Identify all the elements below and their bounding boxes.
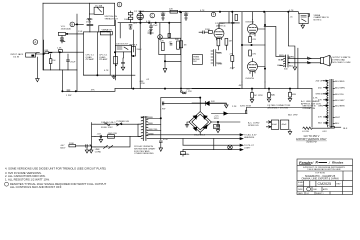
svg-text:HUM BAL: HUM BAL xyxy=(180,153,191,156)
svg-text:FUSE 125V: FUSE 125V xyxy=(101,127,113,129)
svg-text:RED: RED xyxy=(149,117,154,119)
svg-text:25K: 25K xyxy=(193,61,197,63)
svg-text:1. ALL RESISTORS 1/2 WATT 10%: 1. ALL RESISTORS 1/2 WATT 10%. xyxy=(5,177,50,181)
svg-text:CORD: CORD xyxy=(95,152,102,154)
svg-text:325V: 325V xyxy=(214,118,220,120)
svg-text:BLU/YEL: BLU/YEL xyxy=(335,94,345,96)
svg-text:OTHER VERSIONS: OTHER VERSIONS xyxy=(134,153,154,155)
svg-text:INCLOSED 5 OHM: INCLOSED 5 OHM xyxy=(332,62,351,64)
svg-text:R: R xyxy=(316,161,319,165)
svg-text:LIGHT: LIGHT xyxy=(244,148,251,150)
svg-text:50/60 Hz: 50/60 Hz xyxy=(306,140,317,144)
svg-text:DC MA: DC MA xyxy=(95,4,103,7)
svg-text:1M: 1M xyxy=(229,41,232,43)
svg-text:-34V: -34V xyxy=(238,85,243,87)
svg-text:A: A xyxy=(35,40,37,44)
svg-text:8-1: 8-1 xyxy=(307,193,310,195)
svg-text:1300 E VALENCIA FULLERTON CALI: 1300 E VALENCIA FULLERTON CALIF xyxy=(307,168,341,171)
svg-text:BLK: BLK xyxy=(343,128,348,130)
svg-text:MDA 920-3: MDA 920-3 xyxy=(194,134,206,137)
svg-text:4.7K: 4.7K xyxy=(313,98,318,100)
svg-text:.02: .02 xyxy=(146,79,150,81)
svg-text:OMAHA, LINE, EXPORT & JAPAN: OMAHA, LINE, EXPORT & JAPAN xyxy=(302,178,339,181)
svg-text:470: 470 xyxy=(252,39,256,41)
svg-text:C: C xyxy=(151,14,153,18)
svg-text:47K: 47K xyxy=(318,117,322,119)
svg-text:BLK: BLK xyxy=(289,66,294,68)
svg-text:SHEET 1: SHEET 1 xyxy=(316,193,323,195)
svg-text:OPERATION: OPERATION xyxy=(302,107,315,110)
svg-text:40uF: 40uF xyxy=(282,124,288,126)
svg-text:1/4 IN: 1/4 IN xyxy=(13,56,19,58)
svg-text:REV: REV xyxy=(337,184,342,186)
svg-text:1/2W: 1/2W xyxy=(140,83,146,85)
svg-text:CHK: CHK xyxy=(313,189,318,191)
svg-text:600: 600 xyxy=(284,69,288,71)
svg-text:4.7K: 4.7K xyxy=(146,21,151,23)
svg-text:56K: 56K xyxy=(175,39,179,41)
svg-text:220K: 220K xyxy=(69,143,75,145)
svg-text:E: E xyxy=(119,3,121,7)
svg-text:BAL: BAL xyxy=(271,93,276,96)
svg-text:SCALE: SCALE xyxy=(298,181,305,184)
svg-text:6V6GTA: 6V6GTA xyxy=(246,21,255,24)
svg-text:100K: 100K xyxy=(124,19,130,21)
svg-text:6V6GTA: 6V6GTA xyxy=(246,77,255,80)
svg-text:1.5K: 1.5K xyxy=(78,31,83,33)
svg-text:250K AUD: 250K AUD xyxy=(61,28,72,31)
svg-text:4.7K: 4.7K xyxy=(289,10,294,12)
svg-text:10uF: 10uF xyxy=(161,13,167,15)
svg-text:.1uF: .1uF xyxy=(147,31,152,33)
svg-text:1-8-80: 1-8-80 xyxy=(298,185,303,187)
svg-text:25uF: 25uF xyxy=(70,62,76,64)
svg-text:47K: 47K xyxy=(318,100,322,102)
svg-text:Fender: Fender xyxy=(299,160,313,165)
svg-text:BLU/RED: BLU/RED xyxy=(335,81,345,83)
svg-text:.02: .02 xyxy=(169,42,173,44)
svg-text:GRN: GRN xyxy=(217,64,222,66)
svg-text:47uF: 47uF xyxy=(163,139,169,141)
svg-text:4 PW: 4 PW xyxy=(160,109,166,111)
svg-text:BLU/BRN: BLU/BRN xyxy=(335,106,345,108)
svg-text:F: F xyxy=(213,13,215,17)
svg-text:50V: 50V xyxy=(211,101,215,103)
svg-text:NC 1PW: NC 1PW xyxy=(254,95,263,97)
svg-text:4. SOME VERSIONS USE DIODE UN: 4. SOME VERSIONS USE DIODE UNIT FOR TREM… xyxy=(5,166,106,170)
svg-text:325V NOM: 325V NOM xyxy=(240,105,251,107)
svg-text:450: 450 xyxy=(318,88,322,90)
svg-text:ALL CONTROLS MAX AND BOOST OFF: ALL CONTROLS MAX AND BOOST OFF xyxy=(10,185,62,189)
svg-text:BLU: BLU xyxy=(278,60,283,62)
svg-text:1 PW: 1 PW xyxy=(66,95,72,97)
svg-text:(NOTE 4): (NOTE 4) xyxy=(216,25,226,27)
svg-text:250V: 250V xyxy=(86,22,92,24)
svg-text:/: / xyxy=(311,160,314,165)
svg-text:BLU: BLU xyxy=(217,53,222,55)
svg-text:OP AMP: OP AMP xyxy=(86,58,95,61)
svg-text:GRN 470: GRN 470 xyxy=(316,94,326,96)
svg-text:BLK 1PW: BLK 1PW xyxy=(288,115,298,117)
svg-text:.22uF: .22uF xyxy=(229,67,235,69)
svg-text:1/4A SLO-BLO: 1/4A SLO-BLO xyxy=(101,121,116,124)
svg-text:OP AMP: OP AMP xyxy=(99,58,108,61)
svg-text:GRN: GRN xyxy=(289,57,294,59)
svg-text:.047: .047 xyxy=(97,134,102,136)
svg-text:68K: 68K xyxy=(45,50,49,52)
svg-text:BLU/GRN: BLU/GRN xyxy=(335,88,345,90)
svg-text:BRN: BRN xyxy=(279,55,284,57)
svg-text:220K: 220K xyxy=(205,29,211,31)
svg-text:APPD: APPD xyxy=(323,188,329,191)
svg-text:GRN: GRN xyxy=(318,106,323,108)
svg-text:10K BOOST: 10K BOOST xyxy=(116,44,129,46)
svg-text:1 PW: 1 PW xyxy=(186,91,192,93)
svg-text:600V: 600V xyxy=(60,148,66,150)
svg-text:SPKR FLD: SPKR FLD xyxy=(248,125,259,127)
svg-text:POWER SW: POWER SW xyxy=(117,121,130,123)
svg-text:Rhodes: Rhodes xyxy=(332,161,344,165)
svg-text:4.7K: 4.7K xyxy=(104,70,109,72)
svg-text:1.5K: 1.5K xyxy=(57,48,62,50)
svg-text:GRN: GRN xyxy=(149,133,154,135)
svg-text:/: / xyxy=(328,160,331,165)
svg-text:10uF: 10uF xyxy=(184,13,190,15)
svg-text:68: 68 xyxy=(184,44,187,46)
svg-text:BLU/GRY: BLU/GRY xyxy=(335,100,345,102)
svg-text:B: B xyxy=(71,22,73,26)
svg-text:.01: .01 xyxy=(290,17,294,19)
svg-text:RED: RED xyxy=(277,65,282,67)
svg-text:40uF: 40uF xyxy=(272,124,278,126)
svg-text:RED/YEL: RED/YEL xyxy=(149,129,159,131)
svg-text:D: D xyxy=(159,35,161,39)
svg-text:NFB: NFB xyxy=(292,94,297,96)
svg-text:250K: 250K xyxy=(137,49,143,51)
svg-text:CM2025: CM2025 xyxy=(318,182,332,186)
svg-text:1M: 1M xyxy=(52,60,55,62)
svg-text:ASSEMBLY SHOWN: ASSEMBLY SHOWN xyxy=(268,107,289,110)
svg-text:1/2 12AX7: 1/2 12AX7 xyxy=(134,10,145,13)
svg-text:TREBLE POT: TREBLE POT xyxy=(104,18,118,20)
svg-text:WHT: WHT xyxy=(335,117,341,119)
svg-text:200 OFF: 200 OFF xyxy=(316,81,325,83)
svg-text:DATE: DATE xyxy=(298,192,303,195)
svg-text:47K: 47K xyxy=(91,90,95,92)
svg-text:GND SW: GND SW xyxy=(108,133,118,135)
svg-text:4.5V: 4.5V xyxy=(322,131,327,133)
svg-text:TREBLE: TREBLE xyxy=(129,45,138,47)
svg-text:2.2K: 2.2K xyxy=(232,106,237,108)
svg-text:47uF: 47uF xyxy=(153,25,159,27)
svg-text:22K: 22K xyxy=(169,9,173,11)
svg-text:470: 470 xyxy=(252,54,256,56)
svg-text:OFF SW: OFF SW xyxy=(102,32,111,34)
svg-text:RED: RED xyxy=(149,123,154,125)
svg-text:LO 6W: LO 6W xyxy=(302,131,310,133)
svg-text:HEATERS: HEATERS xyxy=(244,136,255,139)
svg-text:BLU: BLU xyxy=(335,123,340,125)
svg-text:4.7K: 4.7K xyxy=(200,10,205,12)
svg-text:DWN: DWN xyxy=(298,189,303,191)
svg-text:NOTE 4: NOTE 4 xyxy=(314,19,323,21)
svg-text:22K: 22K xyxy=(160,41,164,43)
svg-text:BLK: BLK xyxy=(318,123,323,125)
